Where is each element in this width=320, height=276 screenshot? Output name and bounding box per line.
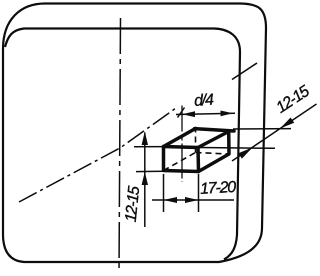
svg-text:17-20: 17-20 — [200, 179, 237, 198]
svg-text:d/4: d/4 — [194, 92, 215, 110]
svg-text:12-15: 12-15 — [273, 83, 313, 117]
svg-text:12-15: 12-15 — [123, 185, 144, 223]
